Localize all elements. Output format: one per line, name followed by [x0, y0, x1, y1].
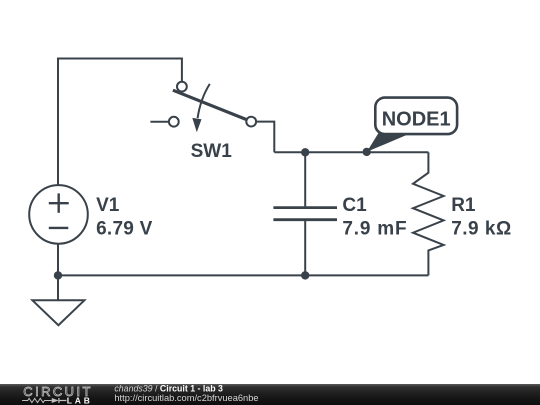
switch SW1 top terminal [177, 82, 187, 92]
switch SW1 blade [173, 90, 246, 119]
wire SW1 left stub [150, 121, 168, 123]
wire ground stem [57, 275, 59, 300]
svg-text:NODE1: NODE1 [382, 109, 451, 131]
switch SW1 actuation arrow [192, 84, 210, 132]
junction dot node NODE1 [363, 148, 371, 156]
svg-text:LAB: LAB [67, 395, 93, 405]
svg-text:C1: C1 [342, 195, 367, 216]
voltage source V1 [29, 185, 88, 244]
resistor R1 [413, 152, 444, 275]
svg-text:7.9 mF: 7.9 mF [342, 218, 407, 239]
switch SW1 left terminal [169, 117, 179, 127]
logo waveform diode [52, 398, 67, 403]
wire C1 top lead [304, 152, 306, 206]
svg-text:6.79 V: 6.79 V [96, 218, 153, 239]
footer bar [0, 384, 540, 405]
capacitor C1 [273, 208, 337, 220]
wire from SW1 right terminal down to top rail [256, 122, 274, 153]
node NODE1 callout [367, 98, 457, 152]
svg-text:http://circuitlab.com/c2bfrvue: http://circuitlab.com/c2bfrvuea6nbe [114, 393, 258, 403]
wire from V1 top up and across to SW1 top terminal [58, 59, 182, 187]
svg-text:SW1: SW1 [191, 141, 233, 162]
svg-text:R1: R1 [451, 195, 476, 216]
ground [32, 300, 84, 325]
junction dot C1 top rail [301, 148, 309, 156]
junction dot V1 bottom / ground [54, 271, 62, 279]
wire from V1 bottom to bottom rail junction [57, 244, 59, 276]
svg-text:7.9 kΩ: 7.9 kΩ [451, 218, 512, 239]
wire top rail [274, 151, 428, 153]
wire bottom rail [58, 274, 428, 276]
wire C1 bottom lead [304, 221, 306, 276]
switch SW1 right terminal [246, 117, 256, 127]
logo waveform resistor [22, 398, 52, 402]
junction dot C1 bottom rail [301, 271, 309, 279]
svg-text:V1: V1 [96, 195, 120, 216]
